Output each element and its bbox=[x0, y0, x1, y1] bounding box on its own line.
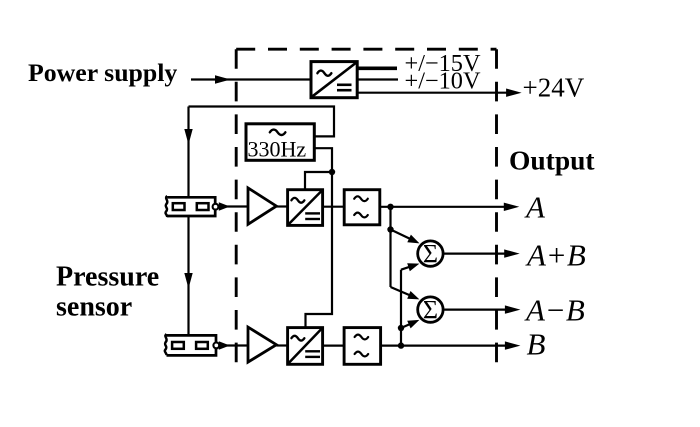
arrowhead output A bbox=[504, 203, 520, 211]
svg-text:A+B: A+B bbox=[525, 238, 586, 273]
wire: sensor 2 output to amplifier bbox=[220, 344, 249, 346]
wire: modulator U2 to filter F1 bbox=[323, 206, 345, 208]
junction dot A branch bbox=[387, 226, 393, 232]
wire: +/-10V output bbox=[357, 78, 398, 80]
junction dot on B line bbox=[398, 342, 404, 348]
wire: channel B output line bbox=[381, 345, 513, 347]
modulator/demodulator U3 (channel B) bbox=[288, 328, 323, 365]
wire: excitation drop sensor1 to sensor 2 bbox=[187, 216, 189, 335]
dashed system boundary box (left edge) bbox=[235, 49, 238, 365]
wire: A branch vertical bbox=[389, 207, 391, 287]
pressure sensor element sensor 1 (channel A) bbox=[165, 196, 218, 217]
svg-text:Σ: Σ bbox=[423, 239, 438, 268]
amplifier A1 (channel A) bbox=[248, 188, 276, 224]
svg-text:Output: Output bbox=[509, 145, 595, 176]
arrowhead sensor 2 output bbox=[219, 341, 230, 349]
arrowhead on +24V line bbox=[506, 89, 521, 97]
junction dot oscillator split bbox=[329, 169, 335, 175]
arrowhead sensor 1 output bbox=[219, 202, 230, 210]
wire: amplifier A1 to modulator U2 bbox=[276, 205, 287, 207]
wire: excitation drop to sensor 1 bbox=[187, 107, 189, 198]
arrowhead output B bbox=[505, 341, 521, 349]
summer S1 (A+B) bbox=[418, 239, 443, 268]
wire: oscillator excitation top run bbox=[189, 107, 335, 137]
wire: junction to modulator U2 top bbox=[305, 172, 332, 190]
junction dot on A line bbox=[387, 204, 393, 210]
wire: junction down to modulator U3 top bbox=[306, 172, 333, 328]
oscillator 330Hz G1 bbox=[246, 124, 314, 162]
wire: power supply input line bbox=[191, 78, 311, 80]
wire: modulator U3 to filter F2 bbox=[323, 345, 345, 347]
svg-text:B: B bbox=[527, 327, 546, 362]
AC/DC power converter U1 bbox=[311, 62, 357, 98]
wire: A to summer S1 bbox=[391, 230, 413, 240]
wire: +24V output line bbox=[357, 92, 512, 94]
svg-text:A−B: A−B bbox=[524, 292, 585, 327]
pressure sensor element sensor 2 (channel B) bbox=[165, 334, 219, 355]
wire: channel A output line bbox=[380, 206, 512, 208]
svg-text:330Hz: 330Hz bbox=[248, 137, 307, 162]
arrowhead down to sensor 2 bbox=[184, 273, 192, 289]
junction dot B branch bbox=[398, 325, 404, 331]
wire: summer S1 output bbox=[444, 253, 512, 255]
arrowhead on power supply input bbox=[215, 75, 231, 83]
wire: B to summer S1 bbox=[401, 266, 413, 270]
filter F2 (channel B) bbox=[344, 328, 381, 365]
wire: sensor 1 output to amplifier bbox=[219, 205, 248, 207]
filter F1 (channel A) bbox=[344, 190, 380, 225]
modulator/demodulator U2 (channel A) bbox=[288, 190, 323, 226]
wire: B branch vertical bbox=[400, 270, 402, 346]
svg-text:Pressure: Pressure bbox=[56, 261, 159, 292]
svg-text:Σ: Σ bbox=[423, 295, 438, 324]
wire: amplifier A2 to modulator U3 bbox=[276, 344, 287, 346]
wire: B to summer S2 bbox=[401, 323, 413, 328]
wire: +/-15V output (thick) bbox=[357, 67, 397, 71]
wire: summer S2 output bbox=[444, 309, 513, 311]
dashed system boundary box (right edge) bbox=[495, 49, 498, 364]
amplifier A2 (channel B) bbox=[248, 327, 276, 362]
svg-text:sensor: sensor bbox=[56, 291, 132, 322]
svg-text:A: A bbox=[524, 190, 546, 225]
wire: oscillator lower output to junction bbox=[314, 148, 332, 172]
arrowhead down to sensor 1 bbox=[184, 129, 192, 145]
dashed system boundary box (top edge) bbox=[236, 48, 496, 51]
summer S2 (A-B) bbox=[418, 295, 443, 324]
svg-text:+/−10V: +/−10V bbox=[405, 67, 481, 94]
svg-text:+24V: +24V bbox=[523, 73, 585, 103]
svg-text:Power supply: Power supply bbox=[28, 58, 177, 87]
wire: A to summer S2 bbox=[391, 287, 414, 297]
